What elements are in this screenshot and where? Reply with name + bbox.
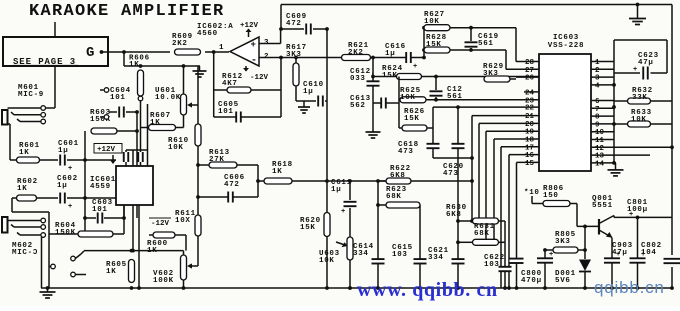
- svg-text:qqibb.cn: qqibb.cn: [594, 278, 665, 297]
- label R624 15K: [382, 65, 403, 80]
- svg-text:1K: 1K: [129, 61, 139, 69]
- wire box to jack: [46, 66, 56, 108]
- circle contact: [41, 106, 46, 111]
- circle contact: [41, 218, 46, 223]
- junction bus: [612, 122, 616, 126]
- label R805 3K3: [555, 231, 576, 246]
- resistor R610: [195, 124, 201, 146]
- svg-text:4: 4: [595, 82, 600, 90]
- svg-text:*10: *10: [524, 189, 540, 197]
- wire C618 drop: [433, 128, 472, 158]
- svg-text:334: 334: [353, 250, 369, 258]
- svg-text:1K: 1K: [150, 119, 160, 127]
- label C12 561: [447, 86, 463, 101]
- wire R632 row: [614, 100, 672, 102]
- capacitor C903: [604, 251, 620, 263]
- wire row y250: [84, 250, 184, 252]
- label C623 47u: [638, 52, 659, 67]
- svg-text:101: 101: [110, 94, 126, 102]
- wire feedback loop: [214, 52, 281, 117]
- svg-text:-12V: -12V: [151, 220, 170, 228]
- junction: [135, 110, 139, 114]
- resistor R606: [138, 70, 144, 96]
- wire R623 row: [378, 205, 420, 288]
- svg-text:68K: 68K: [386, 193, 402, 201]
- label M601 MIC-9: [18, 84, 44, 99]
- switch contacts: [49, 251, 86, 275]
- wire IC603 left pin row y154.6: [509, 155, 539, 288]
- svg-text:+: +: [341, 208, 345, 216]
- wire M602 riser: [48, 212, 50, 288]
- wire IC603 left pin row y115.6: [472, 116, 539, 221]
- wire R602 loop: [12, 198, 49, 212]
- svg-text:16: 16: [525, 152, 535, 160]
- junction: [135, 129, 139, 133]
- svg-text:1K: 1K: [19, 149, 29, 157]
- transistor Q801 5551: [599, 216, 614, 238]
- svg-text:27K: 27K: [209, 156, 225, 164]
- junction: [422, 48, 426, 52]
- junction: [83, 216, 87, 220]
- junction: [371, 75, 375, 79]
- junction bus: [612, 161, 616, 165]
- svg-text:334: 334: [428, 254, 444, 262]
- svg-text:68K: 68K: [474, 230, 490, 238]
- svg-text:033: 033: [350, 75, 366, 83]
- wire C609 row: [281, 28, 327, 30]
- junction bus: [670, 286, 674, 290]
- resistor R630: [473, 218, 499, 224]
- wire to pin28: [516, 28, 539, 62]
- label +10 supply: [524, 189, 540, 197]
- svg-text:10K: 10K: [319, 257, 335, 265]
- wire to pin27: [506, 50, 539, 69]
- wire jack sleeve riser: [41, 237, 43, 288]
- label pin 2: [264, 53, 269, 61]
- circle C604 b: [104, 115, 109, 120]
- svg-text:+: +: [68, 203, 72, 211]
- circle contact: [41, 113, 46, 118]
- junction bus: [348, 286, 352, 290]
- junction: [348, 286, 352, 290]
- junction bus: [610, 286, 614, 290]
- wire R624 row: [373, 76, 539, 78]
- wire C620 column: [457, 107, 459, 288]
- wire IC603 left pin row y131.2: [486, 131, 539, 242]
- resistor R618: [264, 178, 292, 184]
- svg-text:6K8: 6K8: [446, 211, 462, 219]
- label C601 1u: [58, 140, 79, 155]
- capacitor on pin15 drop: [510, 259, 524, 263]
- svg-text:15K: 15K: [300, 224, 316, 232]
- mic jack M602: [2, 217, 41, 235]
- junction: [469, 48, 473, 52]
- svg-text:561: 561: [478, 40, 494, 48]
- title KARAOKE AMPLIFIER: [29, 2, 225, 21]
- svg-text:10K: 10K: [400, 94, 416, 102]
- resistor R600: [153, 232, 175, 238]
- wire pin3: [259, 29, 281, 44]
- label pin 3: [264, 39, 269, 47]
- label R610 10K: [168, 137, 189, 152]
- svg-text:G: G: [86, 45, 94, 61]
- junction: [422, 56, 426, 60]
- label R623 68K: [386, 186, 407, 201]
- arrow into IC601: [110, 155, 116, 164]
- wire R609 to op-amp: [205, 51, 229, 53]
- svg-text:15K: 15K: [382, 72, 398, 80]
- resistor R633: [628, 121, 651, 127]
- svg-text:5551: 5551: [592, 202, 613, 210]
- wire R613 loop: [198, 165, 258, 197]
- wire right edge bus: [671, 5, 673, 289]
- label R609 2K2: [172, 33, 193, 48]
- svg-text:1µ: 1µ: [385, 50, 395, 58]
- svg-text:21: 21: [525, 113, 535, 121]
- label C801 100u: [627, 199, 648, 214]
- label R630 6K8: [446, 204, 467, 219]
- label V602 100K: [153, 270, 174, 285]
- resistor R805: [553, 247, 578, 253]
- svg-text:47µ: 47µ: [638, 59, 654, 67]
- label R628 15K: [426, 34, 447, 49]
- svg-text:KARAOKE AMPLIFIER: KARAOKE AMPLIFIER: [29, 2, 225, 21]
- label C612 033: [350, 68, 376, 83]
- capacitor C604: [119, 107, 124, 118]
- wire IC601 top rail: [126, 149, 148, 151]
- terminal circle: [138, 96, 143, 101]
- resistor R626: [402, 125, 427, 131]
- svg-text:4560: 4560: [197, 30, 218, 38]
- op-amp IC602:A: [230, 37, 259, 67]
- wire V601 bottom: [183, 115, 185, 128]
- capacitor C808: [537, 251, 553, 263]
- capacitor C12 plates: [430, 91, 443, 95]
- svg-text:12: 12: [595, 145, 605, 153]
- junction bus: [543, 286, 547, 290]
- label C605 101: [218, 101, 239, 116]
- wire pin3 to top: [280, 5, 282, 30]
- svg-text:18: 18: [525, 137, 535, 145]
- svg-text:7: 7: [595, 106, 600, 114]
- junction: [470, 179, 474, 183]
- svg-text:10K: 10K: [168, 144, 184, 152]
- junction bus: [612, 83, 616, 87]
- ground top right: [629, 5, 646, 25]
- junction: [434, 75, 438, 79]
- svg-text:3K3: 3K3: [286, 51, 302, 59]
- svg-text:+12V: +12V: [240, 22, 259, 30]
- label R620 15K: [300, 217, 321, 232]
- svg-text:101: 101: [92, 206, 108, 214]
- label R612 4K7: [222, 73, 243, 88]
- svg-text:562: 562: [350, 102, 366, 110]
- junction: [456, 105, 460, 109]
- svg-text:+: +: [413, 63, 417, 71]
- wire V602 column: [183, 251, 185, 288]
- wire IC601 top pin d: [147, 104, 149, 166]
- svg-text:150: 150: [543, 192, 559, 200]
- label C615 103: [392, 244, 413, 259]
- label C621 334: [428, 247, 449, 262]
- junction: [583, 225, 587, 229]
- svg-text:MIC-Ɔ: MIC-Ɔ: [12, 249, 38, 257]
- svg-text:13: 13: [595, 153, 605, 161]
- svg-text:33K: 33K: [632, 94, 648, 102]
- junction bus: [130, 286, 134, 290]
- svg-text:1µ: 1µ: [303, 88, 313, 96]
- resistor R627: [424, 25, 450, 31]
- junction: [122, 216, 126, 220]
- resistor R623: [386, 202, 420, 208]
- junction: [122, 50, 126, 54]
- resistor R629: [484, 76, 510, 82]
- junction: [456, 240, 460, 244]
- wire G to R609: [102, 51, 171, 53]
- junction: [376, 179, 380, 183]
- label R613 27K: [209, 149, 230, 164]
- wire R629 to pin26: [510, 77, 539, 79]
- wire collector row: [614, 216, 672, 218]
- svg-text:3: 3: [595, 75, 600, 83]
- label C618 473: [398, 141, 419, 156]
- wire IC601 bottom pin b: [132, 205, 134, 251]
- wire IC603 left pin row y146.8: [501, 147, 539, 288]
- svg-text:26: 26: [525, 75, 535, 83]
- resistor R617: [293, 63, 299, 86]
- svg-text:-: -: [251, 56, 257, 67]
- wire R601 row: [10, 159, 116, 161]
- resistor R607: [149, 125, 176, 131]
- wire right bus x614: [613, 40, 615, 163]
- wire C610 row: [296, 100, 327, 102]
- svg-text:MIC-9: MIC-9: [18, 91, 44, 99]
- svg-text:1µ: 1µ: [58, 147, 68, 155]
- svg-text:28: 28: [525, 59, 535, 67]
- svg-text:4559: 4559: [90, 183, 111, 191]
- svg-text:104: 104: [641, 249, 657, 257]
- junction bus: [503, 286, 507, 290]
- junction top: [636, 3, 640, 7]
- wire x124 column: [123, 205, 125, 234]
- resistor R620: [324, 213, 330, 237]
- resistor R806: [543, 201, 570, 207]
- svg-text:+: +: [629, 211, 633, 219]
- wire left riser x424: [423, 28, 425, 58]
- svg-text:1K: 1K: [147, 247, 157, 255]
- mic jack M601: [2, 108, 41, 125]
- IC IC603 VSS-228: [539, 54, 591, 171]
- label R631 68K: [474, 223, 495, 238]
- label R618 1K: [272, 161, 293, 176]
- label C616 1u: [385, 43, 406, 58]
- wire branch y66: [124, 52, 200, 66]
- ground bottom left: [40, 288, 56, 298]
- label IC601 4558: [90, 176, 116, 191]
- label D801 5V6: [555, 270, 576, 285]
- svg-text:2K2: 2K2: [172, 40, 188, 48]
- svg-text:10: 10: [595, 129, 605, 137]
- watermark qqibb.cn: [594, 278, 665, 297]
- capacitor C618: [427, 144, 440, 148]
- svg-text:4K7: 4K7: [222, 80, 238, 88]
- svg-text:VSS-228: VSS-228: [548, 42, 584, 50]
- label C604 101: [110, 87, 131, 102]
- junction: [670, 145, 674, 149]
- svg-text:6: 6: [595, 98, 600, 106]
- wire R602 row: [12, 197, 116, 199]
- label R600 1K: [147, 240, 168, 255]
- resistor R602: [17, 195, 37, 201]
- circle contact: [41, 225, 46, 230]
- resistor R628: [424, 47, 450, 53]
- wiper arrow V602: [187, 263, 198, 268]
- label R625 10K: [400, 87, 421, 102]
- label R622 6K8: [390, 165, 411, 180]
- wire IC601 top pin b: [132, 150, 134, 166]
- junction bus: [583, 286, 587, 290]
- label R604 150K: [55, 222, 76, 237]
- capacitor C615: [414, 259, 427, 263]
- capacitor C602: [60, 193, 72, 212]
- svg-text:9: 9: [595, 121, 600, 129]
- wire x85 column: [84, 131, 86, 231]
- wire R805 row: [545, 249, 585, 251]
- svg-text:10K: 10K: [631, 116, 647, 124]
- label R605 1K: [106, 261, 127, 276]
- junction: [182, 64, 186, 68]
- wire R600 row: [149, 235, 186, 251]
- svg-text:470µ: 470µ: [521, 277, 542, 285]
- resistor R632: [628, 98, 651, 104]
- wire pin12 extension: [614, 146, 672, 148]
- wire C12 column: [435, 77, 437, 100]
- wire x137 column: [136, 112, 138, 218]
- junction: [83, 196, 87, 200]
- junction op-amp output node: [212, 50, 216, 54]
- wire riser to pin22: [433, 107, 539, 128]
- wire R622 row: [378, 180, 472, 182]
- wire C622 column: [504, 221, 506, 288]
- wire pin24 stub: [524, 91, 539, 93]
- wire R806 to base: [570, 204, 599, 227]
- svg-text:www. qqibb. cn: www. qqibb. cn: [357, 279, 498, 301]
- wire R625 row pin23: [399, 99, 539, 101]
- svg-text:101: 101: [218, 108, 234, 116]
- circle switch: [51, 264, 56, 269]
- wire V601 top: [183, 66, 185, 94]
- wire emitter column: [611, 238, 613, 288]
- svg-text:+: +: [549, 251, 553, 259]
- label IC602:A 4560: [197, 23, 233, 38]
- ground near op-amp: [193, 66, 207, 77]
- junction: [139, 64, 143, 68]
- junction bus: [612, 105, 616, 109]
- wire R618 row: [258, 180, 386, 182]
- label U603 10K: [319, 250, 340, 265]
- power -12V op-amp: [243, 66, 269, 82]
- wire R633 row: [614, 123, 672, 125]
- wire IC601 bottom pin c: [138, 205, 140, 288]
- wiper arrow V601: [187, 102, 198, 107]
- resistor R604: [78, 231, 113, 237]
- capacitor C620: [452, 144, 465, 148]
- wire R606 down: [140, 101, 142, 128]
- junction: [196, 163, 200, 167]
- wire R603 row: [117, 130, 137, 132]
- svg-text:+: +: [633, 66, 637, 74]
- label R611 10K: [175, 210, 196, 225]
- label C609 472: [286, 13, 307, 28]
- wire box stub up: [54, 22, 56, 37]
- label R606 1K: [129, 55, 150, 69]
- svg-text:100K: 100K: [153, 277, 174, 285]
- capacitor C606: [228, 192, 233, 203]
- wire pin14 ground stub: [614, 162, 616, 164]
- circle contact: [41, 233, 46, 238]
- wire C619 column: [470, 28, 472, 50]
- node G terminal: [100, 50, 104, 54]
- label C613 562: [350, 95, 371, 110]
- wire C603 row: [85, 217, 124, 219]
- resistor R605: [129, 260, 135, 283]
- wire R627 row: [450, 27, 516, 29]
- label C622 103: [484, 254, 505, 269]
- svg-text:14: 14: [595, 160, 605, 168]
- svg-text:10.0K: 10.0K: [155, 94, 181, 102]
- wire D801 column: [584, 226, 586, 288]
- junction: [83, 158, 87, 162]
- capacitor C603: [98, 213, 103, 224]
- svg-text:IC603: IC603: [553, 34, 579, 42]
- label R617 3K3: [286, 44, 307, 59]
- IC IC601 4558: [116, 166, 153, 205]
- capacitor C802: [630, 251, 646, 263]
- svg-text:17: 17: [525, 144, 534, 152]
- svg-text:15K: 15K: [426, 41, 442, 49]
- junction: [456, 219, 460, 223]
- junction: [294, 56, 298, 60]
- resistor R601: [17, 157, 40, 163]
- svg-text:1: 1: [595, 59, 600, 67]
- junction: [477, 219, 481, 223]
- resistor R631: [473, 239, 499, 245]
- label R603 150K: [90, 109, 111, 124]
- label C614 334: [353, 243, 374, 258]
- circle switch: [71, 272, 76, 277]
- svg-text:1K: 1K: [106, 268, 116, 276]
- resistor R612: [227, 87, 251, 93]
- label R806 150: [543, 185, 564, 200]
- resistor R603: [91, 128, 117, 134]
- capacitor C612: [367, 81, 380, 85]
- junction bus: [515, 286, 519, 290]
- junction: [636, 216, 640, 220]
- label pin 1: [219, 44, 224, 52]
- potentiometer V601: [181, 94, 187, 115]
- wire R604 row: [49, 233, 124, 235]
- label IC603 VSS-228: [548, 34, 584, 50]
- wire IC603 left pin row y162.4: [517, 162, 540, 288]
- svg-text:1: 1: [219, 44, 224, 52]
- power +12V op-amp: [240, 22, 259, 37]
- label R601 1K: [19, 142, 40, 157]
- junction: [131, 249, 135, 253]
- junction: [279, 27, 283, 31]
- svg-text:10K: 10K: [424, 18, 440, 26]
- junction: [543, 248, 547, 252]
- label R602 1K: [17, 178, 38, 193]
